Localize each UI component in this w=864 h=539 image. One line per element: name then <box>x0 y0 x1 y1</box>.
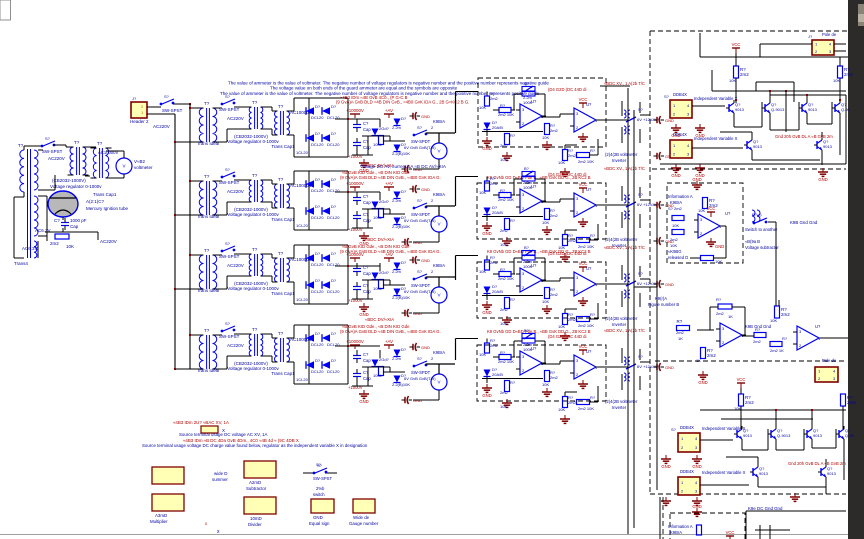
svg-text:10mD: 10mD <box>250 516 262 521</box>
svg-text:R?: R? <box>500 188 506 193</box>
svg-text:SW-SPST: SW-SPST <box>219 107 240 112</box>
svg-text:D?: D? <box>331 331 337 336</box>
svg-text:S?: S? <box>671 427 677 432</box>
svg-text:2m2: 2m2 <box>490 343 499 348</box>
svg-text:released D: released D <box>668 255 688 260</box>
svg-text:K9e DC Gnd Gnd: K9e DC Gnd Gnd <box>748 506 783 511</box>
svg-text:10K: 10K <box>672 223 679 228</box>
svg-text:DDB4X: DDB4X <box>680 469 694 474</box>
svg-text:Q-90: Q-90 <box>845 433 855 438</box>
svg-text:10K: 10K <box>698 208 705 213</box>
svg-text:10K: 10K <box>479 269 486 274</box>
svg-text:2.2(B)10K: 2.2(B)10K <box>392 382 410 387</box>
svg-text:1CL20: 1CL20 <box>296 150 309 155</box>
svg-text:T?: T? <box>74 140 80 145</box>
svg-text:Cap: Cap <box>363 358 371 363</box>
svg-text:≈B(9a B: ≈B(9a B <box>745 239 760 244</box>
svg-text:K9BrA: K9BrA <box>433 119 445 124</box>
svg-text:S?: S? <box>225 321 231 326</box>
svg-text:10K: 10K <box>558 245 565 250</box>
svg-text:C?: C? <box>363 265 369 270</box>
svg-text:S? 2m2: S? 2m2 <box>668 206 683 211</box>
svg-text:U?: U? <box>725 211 731 216</box>
svg-text:D?: D? <box>315 358 321 363</box>
svg-text:T?: T? <box>278 331 284 336</box>
svg-text:GND: GND <box>359 399 368 404</box>
svg-text:R?: R? <box>590 395 596 400</box>
svg-text:R?: R? <box>500 103 506 108</box>
svg-text:2m2: 2m2 <box>500 143 509 148</box>
svg-text:9013: 9013 <box>808 107 818 112</box>
svg-text:Information A: Information A <box>668 524 693 529</box>
svg-text:SW-SPDT: SW-SPDT <box>411 212 431 217</box>
svg-text:2m2: 2m2 <box>568 317 577 322</box>
svg-text:2m2: 2m2 <box>490 260 499 265</box>
svg-text:T?: T? <box>18 143 24 148</box>
svg-text:GND: GND <box>818 177 827 182</box>
svg-text:≈BDC XV., 1 A(2b T/C: ≈BDC XV., 1 A(2b T/C <box>604 245 645 250</box>
svg-text:B?: B? <box>524 81 530 86</box>
svg-text:T?: T? <box>252 100 258 105</box>
svg-text:Voltage regulator 0-1000v: Voltage regulator 0-1000v <box>50 184 102 189</box>
svg-text:V≈B2: V≈B2 <box>134 159 145 164</box>
svg-text:S?: S? <box>164 94 170 99</box>
svg-text:2m2: 2m2 <box>550 128 559 133</box>
svg-text:R?: R? <box>500 350 506 355</box>
svg-text:Switch to another: Switch to another <box>745 227 778 232</box>
svg-text:100K: 100K <box>523 185 533 190</box>
svg-text:2m2: 2m2 <box>716 311 725 316</box>
svg-text:10K: 10K <box>670 243 677 248</box>
svg-text:VCC: VCC <box>732 42 741 47</box>
svg-text:Header 2: Header 2 <box>130 119 149 124</box>
svg-text:DCL20: DCL20 <box>311 289 324 294</box>
svg-text:2m2: 2m2 <box>740 72 749 77</box>
svg-text:Gauge number: Gauge number <box>349 521 379 526</box>
svg-text:T?: T? <box>252 173 258 178</box>
svg-text:SW-SPST: SW-SPST <box>313 476 332 481</box>
svg-text:Independent Variable X: Independent Variable X <box>702 470 746 475</box>
svg-text:D?: D? <box>315 251 321 256</box>
svg-text:(D4 G2D (DC 44D di: (D4 G2D (DC 44D di <box>548 87 586 92</box>
svg-text:1000 pF: 1000 pF <box>70 218 87 223</box>
svg-text:10K: 10K <box>542 220 549 225</box>
svg-text:S?: S? <box>417 269 423 274</box>
svg-text:R?: R? <box>755 327 761 332</box>
svg-text:(D4 G2D (DC 44D di: (D4 G2D (DC 44D di <box>548 334 586 339</box>
svg-text:Independent Variable X: Independent Variable X <box>694 96 738 101</box>
svg-text:DCL20: DCL20 <box>327 215 340 220</box>
svg-text:10K: 10K <box>558 407 565 412</box>
svg-text:SW-SPST: SW-SPST <box>219 254 240 259</box>
svg-text:D?: D? <box>331 358 337 363</box>
svg-text:2Gd?: 2Gd? <box>379 357 390 362</box>
svg-text:(D4 G2D (DC 44D di: (D4 G2D (DC 44D di <box>548 251 586 256</box>
svg-text:K9BrA: K9BrA <box>433 263 445 268</box>
svg-text:SW-SPST: SW-SPST <box>162 108 183 113</box>
svg-text:D?: D? <box>315 204 321 209</box>
svg-text:GND: GND <box>692 504 701 509</box>
svg-text:GND: GND <box>313 515 323 520</box>
svg-text:+AV: +AV <box>385 339 393 344</box>
svg-text:S?: S? <box>225 167 231 172</box>
svg-text:9013: 9013 <box>735 107 745 112</box>
svg-text:10K: 10K <box>542 299 549 304</box>
svg-text:B?: B? <box>524 166 530 171</box>
svg-text:AC220V: AC220V <box>100 239 117 244</box>
svg-text:D?: D? <box>315 131 321 136</box>
svg-text:DCL20: DCL20 <box>311 342 324 347</box>
svg-text:Multiplier: Multiplier <box>150 519 168 524</box>
svg-text:S?: S? <box>638 192 644 197</box>
svg-text:R?: R? <box>510 218 516 223</box>
svg-text:2Gd?: 2Gd? <box>379 270 390 275</box>
svg-text:≈BDC XV., 1 A(2b T/C: ≈BDC XV., 1 A(2b T/C <box>604 166 645 171</box>
svg-text:10K: 10K <box>558 160 565 165</box>
svg-text:Figure number B: Figure number B <box>648 302 679 307</box>
svg-text:10K: 10K <box>479 190 486 195</box>
svg-text:Q-9013: Q-9013 <box>777 433 791 438</box>
svg-text:K9BrA: K9BrA <box>670 530 682 535</box>
svg-text:S?: S? <box>638 271 644 276</box>
svg-text:10K: 10K <box>729 78 736 83</box>
svg-text:Cap: Cap <box>363 376 371 381</box>
svg-text:Cap: Cap <box>363 218 371 223</box>
svg-text:GND: GND <box>665 365 674 370</box>
svg-text:2m2: 2m2 <box>670 237 679 242</box>
svg-text:10K: 10K <box>770 318 777 323</box>
svg-text:voltmeter: voltmeter <box>134 165 153 170</box>
svg-text:T?: T? <box>278 177 284 182</box>
svg-text:20A/B: 20A/B <box>492 210 503 215</box>
svg-text:Independent Variable X: Independent Variable X <box>702 426 746 431</box>
svg-text:DCL20: DCL20 <box>311 262 324 267</box>
svg-text:(9 GvA)A GvB DLD ≈4B DIN GvB.,: (9 GvA)A GvB DLD ≈4B DIN GvB., ≈4B0 GvK … <box>340 249 441 254</box>
svg-text:Gnd 20h GvB DL A ≈B GvB 2m: Gnd 20h GvB DL A ≈B GvB 2m <box>788 461 846 466</box>
svg-text:K9BrA: K9BrA <box>670 200 682 205</box>
svg-text:2.2m: 2.2m <box>392 269 402 274</box>
svg-text:GND: GND <box>665 282 674 287</box>
svg-text:SW-SPDT: SW-SPDT <box>411 283 431 288</box>
svg-text:DCL20: DCL20 <box>311 369 324 374</box>
svg-text:V: V <box>122 164 125 169</box>
svg-text:Gnd 20h GvB DL A ≈B GvB 2m: Gnd 20h GvB DL A ≈B GvB 2m <box>775 134 833 139</box>
svg-text:S?: S? <box>45 136 51 141</box>
svg-text:2%b: 2%b <box>316 486 325 491</box>
svg-text:2m2 10K: 2m2 10K <box>498 197 514 202</box>
svg-text:DCL20: DCL20 <box>311 188 324 193</box>
svg-text:(9 GvA)A GvB DLD ≈4B DIN GvB.,: (9 GvA)A GvB DLD ≈4B DIN GvB., ≈4B0 GvK … <box>336 100 469 105</box>
svg-text:switch: switch <box>313 492 325 497</box>
svg-text:AC220V: AC220V <box>227 263 244 268</box>
svg-text:Inverter: Inverter <box>612 322 627 327</box>
svg-text:GND: GND <box>421 258 430 263</box>
svg-text:2m2 10K: 2m2 10K <box>578 159 594 164</box>
svg-text:2m2 10K: 2m2 10K <box>498 359 514 364</box>
svg-text:Pole de: Pole de <box>822 32 837 37</box>
svg-text:≈BDC XV., 1 A(2b T/C: ≈BDC XV., 1 A(2b T/C <box>604 328 645 333</box>
svg-text:D?: D? <box>401 260 407 265</box>
svg-text:10K: 10K <box>542 135 549 140</box>
svg-text:100k: 100k <box>373 142 382 147</box>
svg-text:T?: T? <box>278 104 284 109</box>
svg-text:R?: R? <box>716 297 722 302</box>
svg-text:C?: C? <box>54 218 60 223</box>
svg-text:Trans Cap1: Trans Cap1 <box>271 371 295 376</box>
svg-text:20A/B: 20A/B <box>492 125 503 130</box>
svg-text:Voltage subtractor: Voltage subtractor <box>745 245 779 250</box>
svg-text:Q-9013: Q-9013 <box>771 107 785 112</box>
svg-text:2Gd?: 2Gd? <box>379 126 390 131</box>
svg-text:V: V <box>437 222 440 227</box>
svg-text:Subtractor: Subtractor <box>246 486 267 491</box>
svg-text:D?: D? <box>315 177 321 182</box>
svg-text:GND: GND <box>698 380 707 385</box>
svg-text:2.2m: 2.2m <box>392 198 402 203</box>
svg-text:10K: 10K <box>66 244 74 249</box>
svg-text:AC220V: AC220V <box>227 189 244 194</box>
svg-text:Trans4: Trans4 <box>14 261 28 266</box>
svg-text:Independent Variable X: Independent Variable X <box>694 136 738 141</box>
svg-text:10K: 10K <box>479 105 486 110</box>
svg-text:10K: 10K <box>500 404 507 409</box>
svg-text:K9B Gnd Gnd: K9B Gnd Gnd <box>790 220 818 225</box>
svg-text:R?: R? <box>590 233 596 238</box>
svg-text:+AV: +AV <box>385 108 393 113</box>
svg-text:GND: GND <box>671 173 680 178</box>
svg-text:T?: T? <box>278 251 284 256</box>
svg-text:100K: 100K <box>523 100 533 105</box>
svg-text:DCL20: DCL20 <box>311 215 324 220</box>
svg-text:Pole de: Pole de <box>822 358 837 363</box>
svg-text:2m2 10K: 2m2 10K <box>578 323 594 328</box>
svg-text:100K: 100K <box>523 264 533 269</box>
svg-text:B?: B? <box>524 328 530 333</box>
svg-text:D?: D? <box>331 177 337 182</box>
svg-text:2m2: 2m2 <box>568 238 577 243</box>
svg-text:V: V <box>437 380 440 385</box>
svg-text:2.2(B)10K: 2.2(B)10K <box>392 224 410 229</box>
svg-text:VCC: VCC <box>737 377 746 382</box>
svg-text:D?: D? <box>331 278 337 283</box>
svg-text:2m2: 2m2 <box>847 400 856 405</box>
svg-text:T?: T? <box>204 248 210 253</box>
svg-text:2m2: 2m2 <box>550 375 559 380</box>
svg-text:VCC: VCC <box>726 530 735 535</box>
svg-text:GND: GND <box>661 464 670 469</box>
svg-text:S?: S? <box>417 198 423 203</box>
svg-text:9013: 9013 <box>743 433 753 438</box>
svg-text:100K: 100K <box>523 347 533 352</box>
svg-text:S?: S? <box>638 107 644 112</box>
svg-text:K9BrA: K9BrA <box>433 350 445 355</box>
svg-text:+10000V: +10000V <box>346 108 364 113</box>
svg-text:1K: 1K <box>678 336 683 341</box>
svg-text:10K: 10K <box>558 324 565 329</box>
svg-text:DDB4X: DDB4X <box>680 425 694 430</box>
svg-text:R?: R? <box>500 267 506 272</box>
svg-text:AC220V: AC220V <box>153 124 170 129</box>
svg-text:≈BDC XV., 1 A(2b T/C: ≈BDC XV., 1 A(2b T/C <box>604 81 645 86</box>
svg-text:Trans Cap1: Trans Cap1 <box>93 192 117 197</box>
svg-text:Wide de: Wide de <box>353 515 370 520</box>
svg-text:D?: D? <box>401 189 407 194</box>
svg-text:1K: 1K <box>728 314 733 319</box>
svg-text:R?: R? <box>510 133 516 138</box>
svg-text:DCL20: DCL20 <box>327 289 340 294</box>
svg-text:D?: D? <box>401 347 407 352</box>
svg-text:100k: 100k <box>373 215 382 220</box>
svg-text:2m2 10K: 2m2 10K <box>578 406 594 411</box>
svg-text:(9 GvA)A GvB DLD ≈4B DIN GvB.,: (9 GvA)A GvB DLD ≈4B DIN GvB., ≈4B0 GvK … <box>340 175 441 180</box>
svg-text:A(2:1)C?: A(2:1)C? <box>86 199 105 204</box>
svg-text:2.2(B)10K: 2.2(B)10K <box>392 295 410 300</box>
svg-text:+10000V: +10000V <box>346 339 364 344</box>
svg-text:(2)4(2B voltmeter: (2)4(2B voltmeter <box>605 399 638 404</box>
svg-text:R?: R? <box>590 312 596 317</box>
svg-text:S?: S? <box>316 462 322 467</box>
svg-text:(CB2032-1000V): (CB2032-1000V) <box>52 178 86 183</box>
svg-text:GND: GND <box>482 231 491 236</box>
svg-text:2m2: 2m2 <box>753 339 762 344</box>
svg-text:T?: T? <box>204 101 210 106</box>
svg-text:1CL20: 1CL20 <box>296 377 309 382</box>
svg-text:T?: T? <box>204 328 210 333</box>
svg-text:V: V <box>437 293 440 298</box>
svg-text:Cap: Cap <box>70 224 79 229</box>
svg-text:VCC: VCC <box>579 261 588 266</box>
svg-text:Divider: Divider <box>248 522 262 527</box>
svg-text:(2)4(2B voltmeter: (2)4(2B voltmeter <box>605 316 638 321</box>
svg-text:T?: T? <box>204 174 210 179</box>
svg-text:1K: 1K <box>696 358 701 363</box>
svg-text:Inverter: Inverter <box>612 405 627 410</box>
svg-text:+AV: +AV <box>385 181 393 186</box>
svg-text:10K: 10K <box>500 157 507 162</box>
svg-text:10K: 10K <box>833 78 840 83</box>
svg-text:2m2: 2m2 <box>500 307 509 312</box>
svg-text:C?: C? <box>363 121 369 126</box>
svg-text:Cap: Cap <box>363 127 371 132</box>
svg-text:2m2 10K: 2m2 10K <box>498 276 514 281</box>
svg-text:Cap: Cap <box>363 145 371 150</box>
svg-text:9013: 9013 <box>823 144 833 149</box>
svg-text:GND: GND <box>482 310 491 315</box>
svg-text:Trans Cap1: Trans Cap1 <box>271 144 295 149</box>
svg-text:9013: 9013 <box>813 433 823 438</box>
svg-text:1CL20: 1CL20 <box>296 223 309 228</box>
svg-text:A2mD: A2mD <box>249 480 261 485</box>
svg-text:D?: D? <box>331 204 337 209</box>
svg-text:Source terminal usage voltage: Source terminal usage voltage DC charge … <box>142 443 368 448</box>
svg-text:Equal sign: Equal sign <box>309 521 330 526</box>
svg-text:Trans Cap1: Trans Cap1 <box>271 291 295 296</box>
svg-text:R?: R? <box>510 380 516 385</box>
svg-text:DDB4X: DDB4X <box>673 92 687 97</box>
svg-text:GND: GND <box>421 345 430 350</box>
svg-text:2m2: 2m2 <box>781 312 790 317</box>
svg-text:100k: 100k <box>373 286 382 291</box>
svg-text:D?: D? <box>315 278 321 283</box>
svg-text:100k: 100k <box>373 373 382 378</box>
svg-text:Mercury Ignition tube: Mercury Ignition tube <box>86 206 129 211</box>
svg-text:10K: 10K <box>479 352 486 357</box>
svg-text:R?: R? <box>782 336 788 341</box>
svg-text:T?: T? <box>97 141 103 146</box>
svg-text:Cap: Cap <box>363 289 371 294</box>
svg-text:20A/B: 20A/B <box>492 289 503 294</box>
svg-text:SW-SPST: SW-SPST <box>42 149 63 154</box>
svg-text:S?: S? <box>417 356 423 361</box>
svg-text:GND: GND <box>692 177 701 182</box>
svg-text:D?: D? <box>315 104 321 109</box>
svg-text:2m2: 2m2 <box>676 330 685 335</box>
svg-text:10K: 10K <box>500 321 507 326</box>
svg-text:C?: C? <box>363 194 369 199</box>
svg-text:9013: 9013 <box>759 471 769 476</box>
svg-text:2m2: 2m2 <box>550 213 559 218</box>
svg-text:≈K9BG: ≈K9BG <box>668 249 681 254</box>
svg-text:Cap: Cap <box>363 271 371 276</box>
svg-text:2m2: 2m2 <box>500 228 509 233</box>
svg-text:Information A: Information A <box>668 194 693 199</box>
svg-text:SW-SPST: SW-SPST <box>219 180 240 185</box>
svg-text:B?: B? <box>524 245 530 250</box>
svg-text:2m2: 2m2 <box>550 292 559 297</box>
svg-text:D?: D? <box>331 104 337 109</box>
svg-text:2m2: 2m2 <box>500 390 509 395</box>
svg-text:SW-SPDT: SW-SPDT <box>411 139 431 144</box>
svg-text:GND: GND <box>715 244 724 249</box>
svg-text:(2)4(2B voltmeter: (2)4(2B voltmeter <box>605 237 638 242</box>
svg-text:GND: GND <box>482 393 491 398</box>
svg-text:Inverter: Inverter <box>612 158 627 163</box>
svg-text:AC220V: AC220V <box>48 156 65 161</box>
svg-text:DCL20: DCL20 <box>327 369 340 374</box>
svg-text:D?: D? <box>401 116 407 121</box>
svg-text:U?: U? <box>815 324 821 329</box>
svg-text:D?: D? <box>331 251 337 256</box>
svg-text:2m2: 2m2 <box>490 181 499 186</box>
svg-text:(2)4(2B voltmeter: (2)4(2B voltmeter <box>605 152 638 157</box>
svg-text:9013: 9013 <box>827 471 837 476</box>
svg-text:10K: 10K <box>500 242 507 247</box>
svg-text:summer: summer <box>212 477 228 482</box>
svg-text:20A/B: 20A/B <box>492 372 503 377</box>
svg-text:2m2: 2m2 <box>568 153 577 158</box>
svg-text:K9BrA: K9BrA <box>433 192 445 197</box>
svg-text:SW-SPDT: SW-SPDT <box>411 370 431 375</box>
svg-text:≈BDC DV/≈XIA: ≈BDC DV/≈XIA <box>365 237 394 242</box>
svg-text:VCC: VCC <box>579 344 588 349</box>
svg-text:2m2 10K: 2m2 10K <box>498 112 514 117</box>
svg-text:AC220V: AC220V <box>227 116 244 121</box>
svg-text:2.2m: 2.2m <box>392 125 402 130</box>
svg-text:Cap: Cap <box>363 200 371 205</box>
svg-text:2.2(B)10K: 2.2(B)10K <box>392 151 410 156</box>
svg-text:S?: S? <box>225 241 231 246</box>
svg-text:≈4B3 IDm 2U? ≈BAC XV, 1A: ≈4B3 IDm 2U? ≈BAC XV, 1A <box>173 420 229 425</box>
svg-text:wide D: wide D <box>214 471 227 476</box>
svg-text:10K: 10K <box>542 382 549 387</box>
svg-text:DCL20: DCL20 <box>311 115 324 120</box>
svg-text:9013: 9013 <box>753 144 763 149</box>
svg-text:DCL20: DCL20 <box>311 142 324 147</box>
svg-text:C?: C? <box>363 352 369 357</box>
svg-text:T?: T? <box>252 327 258 332</box>
svg-text:DCL20: DCL20 <box>327 142 340 147</box>
svg-text:2m2: 2m2 <box>745 400 754 405</box>
